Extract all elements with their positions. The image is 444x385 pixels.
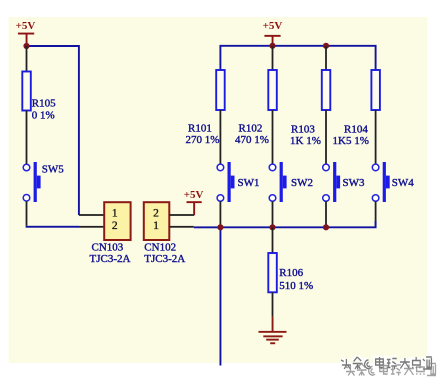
resistor R102 xyxy=(235,70,277,146)
svg-text:+5V: +5V xyxy=(16,20,36,32)
svg-text:2: 2 xyxy=(153,207,159,219)
pin line CN102 pin1 xyxy=(169,226,194,228)
junction node A xyxy=(23,43,29,49)
svg-text:CN103: CN103 xyxy=(92,242,124,254)
pin line CN103 pin2 xyxy=(79,226,104,228)
junction node B xyxy=(217,224,223,230)
wire R101 to SW1 xyxy=(220,110,222,164)
svg-text:+5V: +5V xyxy=(263,20,283,32)
wire R104 to SW4 xyxy=(375,110,377,164)
resistor R105 xyxy=(22,72,56,122)
svg-text:SW1: SW1 xyxy=(238,177,260,189)
wire long vertical to bottom edge xyxy=(220,227,222,365)
svg-text:2: 2 xyxy=(112,220,118,232)
switch SW1 xyxy=(217,162,259,202)
wire SW5 to CN103 pin2 xyxy=(26,201,28,226)
wire bottom net (blue) xyxy=(220,221,375,227)
switch SW2 xyxy=(269,162,313,202)
connector CN103 xyxy=(90,202,131,265)
junction on bus at R102 xyxy=(269,43,275,49)
svg-text:1K5 1%: 1K5 1% xyxy=(333,135,369,147)
svg-text:270 1%: 270 1% xyxy=(186,134,220,146)
wire bus drop R103 xyxy=(325,46,327,70)
power +5V P1 (top left) xyxy=(16,20,36,46)
svg-text:510 1%: 510 1% xyxy=(279,280,313,292)
svg-text:R103: R103 xyxy=(291,123,315,135)
wire SW2 to bottom net xyxy=(272,201,274,227)
switch SW5 xyxy=(23,162,64,202)
wire R103 to SW3 xyxy=(325,110,327,164)
wire top bus (blue) xyxy=(220,46,375,70)
watermark text copy 2 xyxy=(345,364,436,376)
watermark text copy 1 xyxy=(341,357,432,369)
svg-text:TJC3-2A: TJC3-2A xyxy=(90,253,131,265)
junction at R106 xyxy=(269,224,275,230)
ground xyxy=(259,317,287,345)
svg-text:R106: R106 xyxy=(279,267,303,279)
wire node A to R105 xyxy=(26,46,28,72)
svg-text:SW5: SW5 xyxy=(42,163,65,175)
resistor R106 xyxy=(268,253,313,292)
power +5V P2 (at CN102) xyxy=(184,189,204,215)
junction on bus at R103 xyxy=(323,43,329,49)
white halo behind watermark xyxy=(341,357,432,369)
wire SW1 to bottom net xyxy=(220,201,222,227)
svg-text:+5V: +5V xyxy=(184,189,204,201)
pin line CN103 pin1 xyxy=(79,214,104,216)
svg-text:SW3: SW3 xyxy=(343,177,366,189)
svg-text:R101: R101 xyxy=(188,123,212,135)
svg-text:R104: R104 xyxy=(344,123,368,135)
svg-text:R102: R102 xyxy=(239,123,263,135)
wire SW4 to bottom net xyxy=(375,201,377,227)
wire R106 to ground xyxy=(272,292,274,316)
svg-text:R105: R105 xyxy=(32,98,56,110)
switch SW4 xyxy=(372,162,414,202)
wire: +5V node A to CN103 pin1 (blue) xyxy=(27,46,79,215)
connector CN102 xyxy=(144,202,186,265)
svg-text:1: 1 xyxy=(112,207,118,219)
svg-text:SW2: SW2 xyxy=(291,177,313,189)
svg-text:SW4: SW4 xyxy=(392,177,415,189)
svg-text:1: 1 xyxy=(153,220,159,232)
wire bus drop R102 xyxy=(272,46,274,70)
wire R102 to SW2 xyxy=(272,110,274,164)
switch SW3 xyxy=(323,162,365,202)
resistor R104 xyxy=(333,70,380,147)
resistor R101 xyxy=(186,70,225,146)
pin line CN102 pin2 xyxy=(169,214,194,216)
resistor R103 xyxy=(290,70,330,147)
power +5V P3 (top right) xyxy=(263,20,283,46)
junction at SW3 branch xyxy=(323,224,329,230)
svg-text:0 1%: 0 1% xyxy=(32,110,55,122)
wire net to R106 xyxy=(272,227,274,253)
wire CN102 pin1 to node B xyxy=(194,226,221,228)
svg-text:1K 1%: 1K 1% xyxy=(290,135,321,147)
wire R105 to SW5 xyxy=(26,111,28,165)
svg-text:TJC3-2A: TJC3-2A xyxy=(144,253,185,265)
svg-text:CN102: CN102 xyxy=(144,242,176,254)
wire SW3 to bottom net xyxy=(325,201,327,227)
svg-text:470 1%: 470 1% xyxy=(235,134,269,146)
